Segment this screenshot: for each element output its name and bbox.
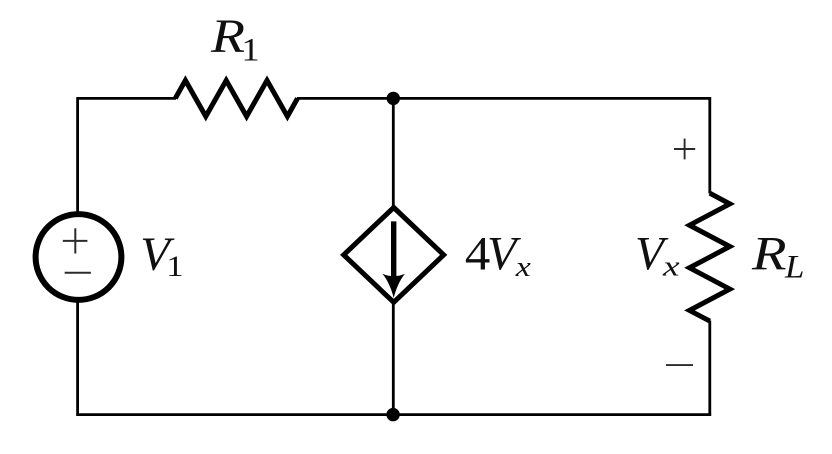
wire: bottom rail left (node B to V1) — [76, 413, 393, 416]
label R1 — [210, 10, 260, 67]
resistor RL — [690, 193, 730, 321]
wire: left branch lower — [76, 301, 79, 416]
wire: left branch upper (V1 to top-left corner) — [76, 98, 79, 213]
wire: middle branch upper (node A to current source) — [392, 98, 395, 206]
wire: right branch lower — [708, 321, 711, 416]
label − (inside V1) — [65, 272, 91, 274]
svg-text:R: R — [210, 10, 245, 63]
label Vx — [635, 228, 680, 282]
wire: bottom rail right (RL to node B) — [393, 413, 711, 416]
svg-text:R: R — [751, 228, 787, 281]
resistor R1 — [175, 80, 297, 116]
svg-text:x: x — [662, 252, 680, 283]
label + (Vx polarity top) — [674, 139, 695, 160]
label 4Vx — [465, 227, 531, 283]
wire: middle branch lower (current source to node B) — [392, 301, 395, 415]
node B junction dot (bottom) — [386, 408, 399, 421]
controlled current source 4Vx (diamond) — [344, 208, 444, 303]
svg-text:1: 1 — [241, 31, 259, 68]
current source arrow shaft — [391, 221, 396, 278]
svg-text:x: x — [515, 251, 531, 283]
svg-text:1: 1 — [166, 250, 183, 283]
label RL — [751, 228, 805, 286]
label − (Vx polarity bottom) — [666, 364, 693, 366]
voltage source V1 (circle) — [36, 214, 122, 300]
wire: top rail R1 to node A — [297, 97, 393, 100]
node A junction dot (top) — [387, 92, 400, 105]
wire: top rail left of R1 — [76, 97, 176, 100]
current source arrow head — [382, 274, 405, 298]
label + (inside V1) — [63, 228, 88, 253]
wire: top rail node A to top-right corner — [393, 97, 711, 100]
label V1 — [140, 228, 183, 283]
svg-text:L: L — [784, 249, 804, 285]
wire: right branch upper — [708, 97, 711, 193]
